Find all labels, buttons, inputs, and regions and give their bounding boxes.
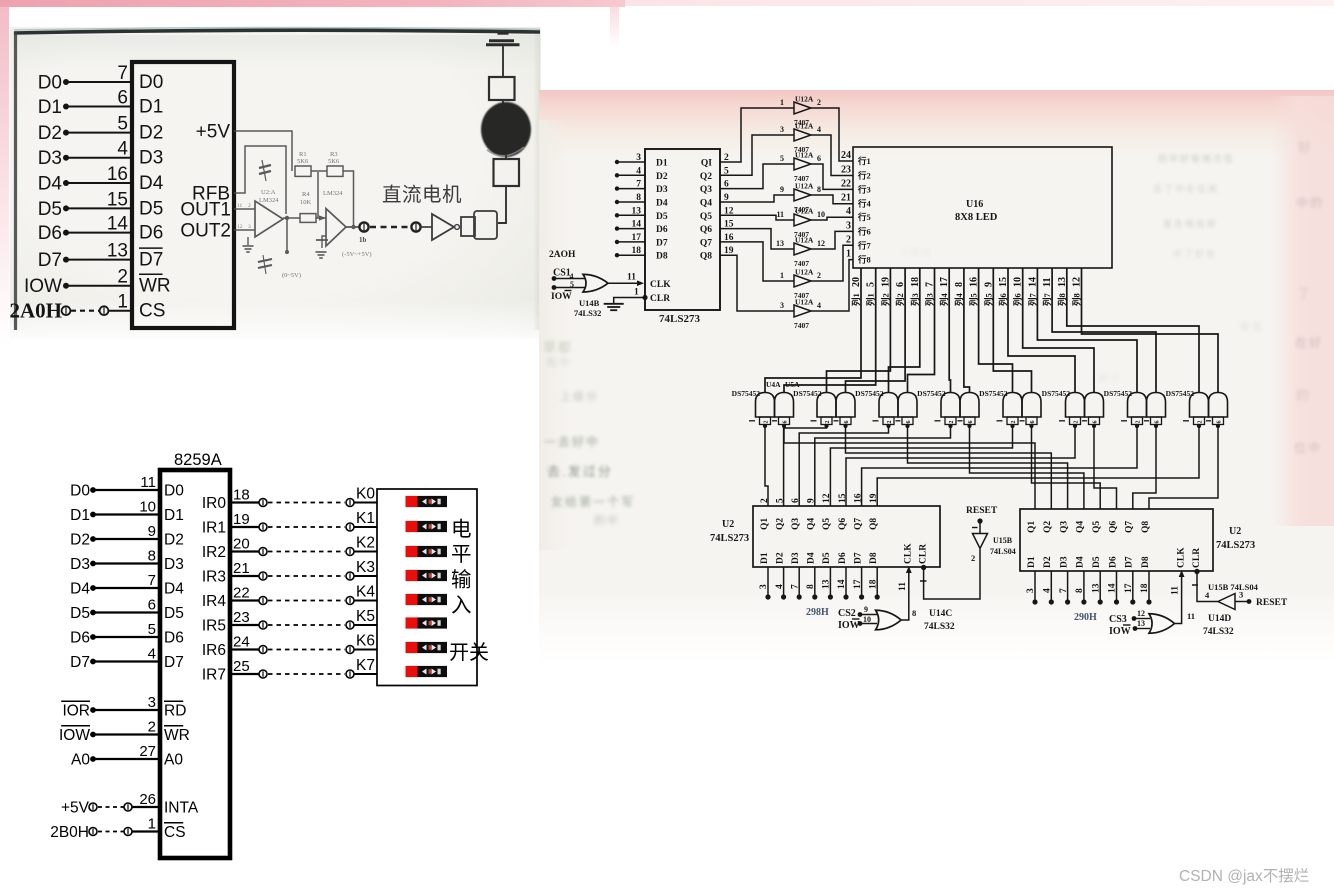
7407 buffer U12-3 xyxy=(794,158,811,170)
svg-text:2: 2 xyxy=(1198,421,1204,424)
wire D5 stub U2R xyxy=(1099,571,1101,602)
74LS273 U11 body xyxy=(645,149,720,310)
wire D7 to DAC pin 13 xyxy=(66,259,132,261)
svg-text:列7: 列7 xyxy=(1042,292,1052,306)
driver output dot pair6L xyxy=(1073,424,1077,428)
dashed wire +5V xyxy=(98,806,124,808)
svg-text:开关: 开关 xyxy=(449,641,489,664)
svg-text:列7: 列7 xyxy=(1027,292,1037,306)
wire IR1 segment 1 xyxy=(230,526,259,528)
wire op-amp2 output xyxy=(346,226,359,228)
node dot U11 D1 xyxy=(615,160,619,164)
svg-text:K6: K6 xyxy=(356,633,375,650)
svg-text:Q5: Q5 xyxy=(822,518,832,530)
capacitor C1 xyxy=(259,165,271,168)
wire buffer 7 to LED row 7 xyxy=(811,245,853,281)
svg-text:U12A: U12A xyxy=(795,122,814,131)
driver output dot pair3R xyxy=(905,424,909,428)
svg-text:2: 2 xyxy=(764,421,770,424)
dashed wire IR1 xyxy=(268,526,345,528)
svg-text:D1: D1 xyxy=(656,159,668,169)
svg-text:12: 12 xyxy=(237,224,243,230)
driver gate DS75452 pair3R xyxy=(898,393,917,418)
svg-text:D3: D3 xyxy=(164,556,184,573)
pin number 14 U2R xyxy=(1108,583,1118,593)
node dot op-amp1 output xyxy=(285,216,289,220)
pin number 11 CLK U2R xyxy=(1171,586,1181,595)
pin number 14 column xyxy=(1027,277,1038,287)
node dot D3 xyxy=(90,561,96,567)
svg-text:Q2: Q2 xyxy=(1043,521,1053,533)
driver pin box pair1R xyxy=(779,417,790,425)
driver pin box pair8L xyxy=(1194,417,1205,425)
svg-text:Q7: Q7 xyxy=(700,238,712,248)
svg-text:K3: K3 xyxy=(356,559,375,576)
svg-text:2: 2 xyxy=(887,421,893,424)
node dot D4 xyxy=(90,585,96,591)
svg-text:11: 11 xyxy=(898,582,908,591)
pin label 列7 xyxy=(1027,292,1037,306)
svg-text:13: 13 xyxy=(107,241,128,262)
wire R5 to motor xyxy=(502,100,504,105)
pin number 18 column xyxy=(910,277,921,287)
svg-text:Q5: Q5 xyxy=(1092,521,1102,533)
driver output dot pair4R xyxy=(967,424,971,428)
dashed wire IR7 xyxy=(268,673,345,675)
driver pin box pair3R xyxy=(902,417,913,425)
switch S2 body xyxy=(418,546,448,557)
wire U11 D6 xyxy=(617,228,645,230)
wire CS3 to U14D xyxy=(1134,618,1150,620)
svg-text:2: 2 xyxy=(971,553,975,563)
svg-text:D0: D0 xyxy=(70,483,90,500)
svg-text:9: 9 xyxy=(807,498,817,503)
pin number 4 U2L xyxy=(775,584,785,589)
node dot CS1 xyxy=(552,276,557,281)
node dot U11 D6 xyxy=(615,226,619,230)
svg-text:中了好在: 中了好在 xyxy=(1173,248,1217,259)
wire driver pair7L to U2L Q7 xyxy=(862,426,1137,506)
svg-text:4: 4 xyxy=(817,301,821,310)
svg-text:8: 8 xyxy=(1075,588,1085,593)
svg-text:中的: 中的 xyxy=(1296,195,1324,210)
svg-text:8: 8 xyxy=(912,608,916,618)
svg-text:4: 4 xyxy=(817,125,821,134)
driver output dot pair8R xyxy=(1216,424,1220,428)
svg-text:74LS273: 74LS273 xyxy=(1216,540,1255,551)
svg-text:6: 6 xyxy=(783,421,789,424)
node dot D8 U2R xyxy=(1146,599,1151,604)
svg-text:K5: K5 xyxy=(356,608,375,625)
svg-text:23: 23 xyxy=(841,165,851,176)
pin label D8 U2L xyxy=(869,552,879,564)
node dot U11 D7 xyxy=(615,240,619,244)
svg-text:74LS32: 74LS32 xyxy=(924,622,955,632)
left scan paper xyxy=(10,7,541,27)
driver output dot pair5L xyxy=(1010,424,1014,428)
wire buffer 3 to LED row 3 xyxy=(811,164,853,189)
svg-text:17: 17 xyxy=(632,233,642,243)
pin dash marks pair1 xyxy=(749,420,755,422)
7407 buffer U12-8 xyxy=(794,305,811,317)
driver pin box pair6R xyxy=(1089,417,1100,425)
wire IR2 segment 1 xyxy=(230,550,259,552)
wire U11 Q8 to buffer 8 xyxy=(720,255,794,311)
svg-text:D5: D5 xyxy=(38,199,62,220)
wire D6 to 8259A xyxy=(93,636,160,638)
svg-text:1: 1 xyxy=(780,98,784,107)
svg-text:直流电机: 直流电机 xyxy=(382,184,462,206)
wire buffer 8 to LED row 8 xyxy=(811,260,853,311)
wire column 列3 pin 18 to driver xyxy=(889,268,920,393)
wire driver pair3R to U2R Q3 xyxy=(908,426,1068,509)
wire D5 to DAC pin 15 xyxy=(66,207,132,209)
svg-text:行4: 行4 xyxy=(857,199,872,209)
wire column 列2 pin 19 to driver xyxy=(827,268,891,393)
switch S4 body xyxy=(418,594,448,605)
pin label 列4 xyxy=(954,292,964,306)
node dot D0 xyxy=(63,79,69,85)
svg-text:IR4: IR4 xyxy=(202,593,227,610)
switch S5 body xyxy=(418,617,448,628)
pin label Q7 U2L xyxy=(853,518,863,530)
svg-text:列4: 列4 xyxy=(939,292,949,306)
svg-text:9: 9 xyxy=(780,185,784,194)
driver output dot pair7L xyxy=(1135,424,1139,428)
svg-text:IOW: IOW xyxy=(24,276,62,297)
wire driver pair6R to U2R Q6 xyxy=(1094,426,1117,509)
svg-text:D1: D1 xyxy=(760,552,770,564)
svg-text:D4: D4 xyxy=(38,174,63,195)
resistor R4 10K xyxy=(300,214,316,223)
svg-text:Q3: Q3 xyxy=(700,185,712,195)
wire D2 stub U2R xyxy=(1050,571,1052,602)
svg-text:290H: 290H xyxy=(1074,612,1097,623)
svg-text:U5A: U5A xyxy=(785,380,800,389)
svg-text:2: 2 xyxy=(1011,421,1017,424)
wire IR4 to switch box xyxy=(354,600,377,602)
node dot D0 xyxy=(90,487,96,493)
pin dash marks pair7 xyxy=(1121,420,1127,422)
svg-text:K7: K7 xyxy=(356,657,375,674)
7407 buffer U12-7 xyxy=(794,275,811,287)
svg-text:9: 9 xyxy=(864,605,868,614)
svg-text:27: 27 xyxy=(139,743,156,760)
pin number 9 column xyxy=(983,282,994,287)
svg-text:Q3: Q3 xyxy=(1059,521,1069,533)
wire D1 stub U2L xyxy=(767,567,769,597)
svg-text:D5: D5 xyxy=(656,212,668,222)
svg-text:D3: D3 xyxy=(38,148,62,169)
wire node down stub xyxy=(286,218,288,252)
wire to driver buffer xyxy=(421,226,433,228)
connector terminal B xyxy=(411,222,420,231)
svg-text:4: 4 xyxy=(846,206,851,217)
svg-text:Q7: Q7 xyxy=(853,518,863,530)
wire IR2 to switch box xyxy=(354,551,377,553)
wire RESET stub xyxy=(979,521,981,533)
connector terminal IR0 a xyxy=(259,499,267,507)
svg-text:列3: 列3 xyxy=(925,293,935,306)
svg-text:D5: D5 xyxy=(164,605,184,622)
svg-text:18: 18 xyxy=(632,246,642,256)
node dot U11 D8 xyxy=(615,253,619,257)
node dot D4 xyxy=(63,180,69,186)
svg-text:2: 2 xyxy=(1136,421,1142,424)
pin number 4 U2R xyxy=(1043,588,1053,593)
svg-text:11: 11 xyxy=(140,474,156,491)
wire D1 to DAC pin 6 xyxy=(66,106,132,108)
wire column 列4 pin 17 to driver xyxy=(949,268,950,393)
svg-text:4: 4 xyxy=(775,584,785,589)
svg-text:1: 1 xyxy=(846,249,851,260)
op-amp U2A xyxy=(255,201,283,237)
dashed wire IR5 xyxy=(268,624,345,626)
wire op-amp1 output xyxy=(283,217,300,219)
wire U11 D8 xyxy=(617,254,645,256)
pin label D3 U2R xyxy=(1059,556,1069,568)
switch S7 red cap xyxy=(406,666,418,677)
pin number 16 U2L xyxy=(853,493,863,503)
wire D2 stub U2L xyxy=(783,567,785,597)
svg-text:2: 2 xyxy=(949,421,955,424)
svg-text:D4: D4 xyxy=(807,552,817,564)
pin label D1 U2L xyxy=(760,552,770,564)
pin label 列1 xyxy=(866,293,876,306)
svg-text:IR5: IR5 xyxy=(202,618,226,635)
connector terminal IR1 b xyxy=(346,523,354,531)
7407 buffer U12-2 xyxy=(794,129,811,141)
svg-text:D4: D4 xyxy=(656,199,668,209)
wire D6 stub U2R xyxy=(1116,571,1118,602)
svg-text:一去好中: 一去好中 xyxy=(544,434,600,449)
svg-text:10K: 10K xyxy=(300,199,312,206)
svg-text:14: 14 xyxy=(1108,583,1118,593)
svg-text:1: 1 xyxy=(634,288,639,298)
svg-text:Q5: Q5 xyxy=(700,212,712,222)
wire U11 Q2 to buffer 2 xyxy=(720,135,794,175)
svg-text:U14B: U14B xyxy=(579,298,600,308)
svg-text:23: 23 xyxy=(233,609,250,626)
svg-text:列2: 列2 xyxy=(895,293,905,306)
wire OUT2 to op-amp xyxy=(234,229,255,231)
svg-text:上级分: 上级分 xyxy=(560,390,599,403)
wire D3 to DAC pin 4 xyxy=(66,157,132,159)
svg-text:2: 2 xyxy=(248,203,251,209)
svg-text:D7: D7 xyxy=(139,250,163,271)
pin label 列5 xyxy=(983,293,993,306)
wire column 列7 pin 11 to driver xyxy=(1052,268,1156,393)
wire column 列7 pin 14 to driver xyxy=(1037,268,1137,393)
svg-text:在位: 在位 xyxy=(1240,320,1264,333)
wire IOW to 8259A xyxy=(93,733,160,735)
svg-text:D0: D0 xyxy=(139,72,163,93)
svg-text:D1: D1 xyxy=(1027,556,1037,568)
node dot RESET left xyxy=(977,518,982,523)
node dot CS2 xyxy=(858,612,863,617)
node dot RESET right xyxy=(1247,599,1252,604)
dashed wire IR6 xyxy=(268,649,345,651)
wire D5 stub U2L xyxy=(829,567,831,597)
wire buffer 1 to LED row 1 xyxy=(811,108,853,161)
switch S7 body xyxy=(418,666,448,677)
pin label Q6 U2R xyxy=(1108,521,1118,533)
svg-text:9: 9 xyxy=(148,523,156,540)
node dot D1 U2R xyxy=(1032,599,1037,604)
pin number 18 U2L xyxy=(868,579,878,589)
connector terminal IR3 b xyxy=(346,572,354,580)
svg-text:D2: D2 xyxy=(656,172,668,182)
svg-text:列8: 列8 xyxy=(1072,293,1082,306)
svg-text:A0: A0 xyxy=(164,752,183,769)
svg-text:D2: D2 xyxy=(164,532,184,549)
svg-text:有中: 有中 xyxy=(546,355,572,369)
svg-text:行6: 行6 xyxy=(857,226,871,236)
74LS273 U2L body xyxy=(753,506,940,567)
svg-text:2A0H: 2A0H xyxy=(10,299,63,323)
pin label Q3 U2R xyxy=(1059,521,1069,533)
wire D0 to 8259A xyxy=(93,489,160,491)
svg-text:K0: K0 xyxy=(356,486,375,503)
svg-text:12: 12 xyxy=(822,493,832,503)
svg-text:8: 8 xyxy=(148,548,156,565)
svg-text:DS75452: DS75452 xyxy=(1042,389,1071,398)
pin label 列3 xyxy=(925,293,935,306)
pin label CLR U2R xyxy=(1192,548,1202,568)
svg-text:2: 2 xyxy=(817,271,821,280)
wire D2 to DAC pin 5 xyxy=(66,132,132,134)
wire buffer 5 to LED row 5 xyxy=(811,217,853,220)
switch S1 markings xyxy=(422,524,427,530)
pin label D1 U2R xyxy=(1027,556,1037,568)
svg-text:IOW: IOW xyxy=(838,620,860,631)
wire +5V to chip xyxy=(132,806,160,808)
wire D4 stub U2L xyxy=(814,567,816,597)
wire IR1 to switch box xyxy=(354,526,377,528)
pin label D5 U2L xyxy=(822,552,832,564)
svg-text:6: 6 xyxy=(148,597,156,614)
node dot D2 U2R xyxy=(1049,599,1054,604)
pin label CLK U2L xyxy=(904,543,914,564)
wire column 列1 pin 5 to driver xyxy=(784,268,876,393)
74LS273 U2R body xyxy=(1020,509,1213,571)
svg-text:Q1: Q1 xyxy=(1027,521,1037,533)
svg-text:5: 5 xyxy=(775,498,785,503)
svg-text:D6: D6 xyxy=(139,223,163,244)
driver plug big box xyxy=(474,211,497,239)
node dot D7 xyxy=(63,257,69,263)
svg-text:DS75452: DS75452 xyxy=(732,389,761,398)
node dot D6 U2R xyxy=(1114,599,1119,604)
svg-text:11: 11 xyxy=(776,210,784,219)
svg-text:D8: D8 xyxy=(869,552,879,564)
wire RESET right xyxy=(1235,601,1248,603)
wire D4 to DAC pin 16 xyxy=(66,182,132,184)
wire U11 Q3 to buffer 3 xyxy=(720,164,794,189)
svg-text:4: 4 xyxy=(636,166,641,176)
switch S4 markings xyxy=(422,597,427,603)
svg-text:11: 11 xyxy=(1187,611,1195,621)
node dot D6 xyxy=(63,230,69,236)
pin label D6 U2L xyxy=(838,552,848,564)
svg-text:7407: 7407 xyxy=(794,321,809,330)
svg-text:5: 5 xyxy=(148,621,156,638)
pin number 5 column xyxy=(866,282,877,287)
node dot IOR xyxy=(90,707,96,713)
svg-text:的: 的 xyxy=(1296,388,1311,403)
wire IR7 to switch box xyxy=(354,673,377,675)
svg-text:CS: CS xyxy=(139,301,165,322)
svg-text:CLK: CLK xyxy=(650,280,671,290)
driver gate DS75452 pair5R xyxy=(1022,393,1041,418)
svg-text:3: 3 xyxy=(248,224,251,230)
OR gate U14B 74LS32 xyxy=(583,274,608,292)
connector terminal 2 on CS net xyxy=(100,306,109,315)
svg-text:发生地在好: 发生地在好 xyxy=(1163,218,1218,229)
wire IR6 segment 1 xyxy=(230,648,259,650)
svg-text:U15B: U15B xyxy=(993,536,1013,545)
svg-text:列4: 列4 xyxy=(954,292,964,306)
svg-text:8: 8 xyxy=(806,584,816,589)
svg-text:6: 6 xyxy=(791,498,801,503)
svg-text:74LS04: 74LS04 xyxy=(990,547,1016,556)
svg-text:QI: QI xyxy=(701,159,712,169)
svg-text:U12A: U12A xyxy=(795,268,814,277)
svg-text:15: 15 xyxy=(838,493,848,503)
pin label 列7 xyxy=(1042,292,1052,306)
pin label Q1 U2L xyxy=(760,518,770,530)
frame left border xyxy=(14,32,17,330)
svg-text:CLR: CLR xyxy=(918,544,928,564)
svg-text:(0~5V): (0~5V) xyxy=(282,272,301,279)
svg-text:D2: D2 xyxy=(1043,556,1053,568)
pin label 列8 xyxy=(1072,293,1082,306)
svg-text:CSDN @jax不摆烂: CSDN @jax不摆烂 xyxy=(1179,867,1309,885)
wire U11 D7 xyxy=(617,241,645,243)
driver gate DS75452 pair1L xyxy=(756,393,775,418)
svg-text:24: 24 xyxy=(841,150,851,161)
svg-text:IR6: IR6 xyxy=(202,642,226,659)
wire IOW to DAC pin 2 xyxy=(66,285,132,287)
svg-text:RESET: RESET xyxy=(1256,598,1288,608)
wire buffer 2 to LED row 2 xyxy=(811,135,853,176)
driver pin box pair5L xyxy=(1007,417,1018,425)
driver gate DS75452 pair8R xyxy=(1209,393,1228,418)
svg-text:叶上: 叶上 xyxy=(660,311,684,323)
svg-text:14: 14 xyxy=(632,220,642,230)
wire U11 D3 xyxy=(617,188,645,190)
svg-text:列1: 列1 xyxy=(866,293,876,306)
svg-text:7: 7 xyxy=(117,63,128,84)
node dot IOW xyxy=(90,732,96,738)
pin number 7 U2R xyxy=(1059,588,1069,593)
pin number 2 U2L xyxy=(760,498,770,503)
wire ground to resistor R5 xyxy=(502,46,504,77)
wire OUT1 to op-amp xyxy=(234,208,255,210)
8259A chip body xyxy=(160,470,230,858)
svg-text:INTA: INTA xyxy=(164,800,199,817)
svg-text:3: 3 xyxy=(759,584,769,589)
driver output dot pair6R xyxy=(1092,424,1096,428)
svg-text:U12A: U12A xyxy=(795,95,814,104)
pin label D2 U2R xyxy=(1043,556,1053,568)
wire tap to op-amp2 input xyxy=(317,172,319,218)
svg-text:电: 电 xyxy=(451,518,472,541)
driver gate DS75452 pair7L xyxy=(1128,393,1147,418)
svg-text:行2: 行2 xyxy=(857,171,871,181)
svg-text:13: 13 xyxy=(822,579,832,589)
pin label CLK U2R xyxy=(1176,547,1186,568)
